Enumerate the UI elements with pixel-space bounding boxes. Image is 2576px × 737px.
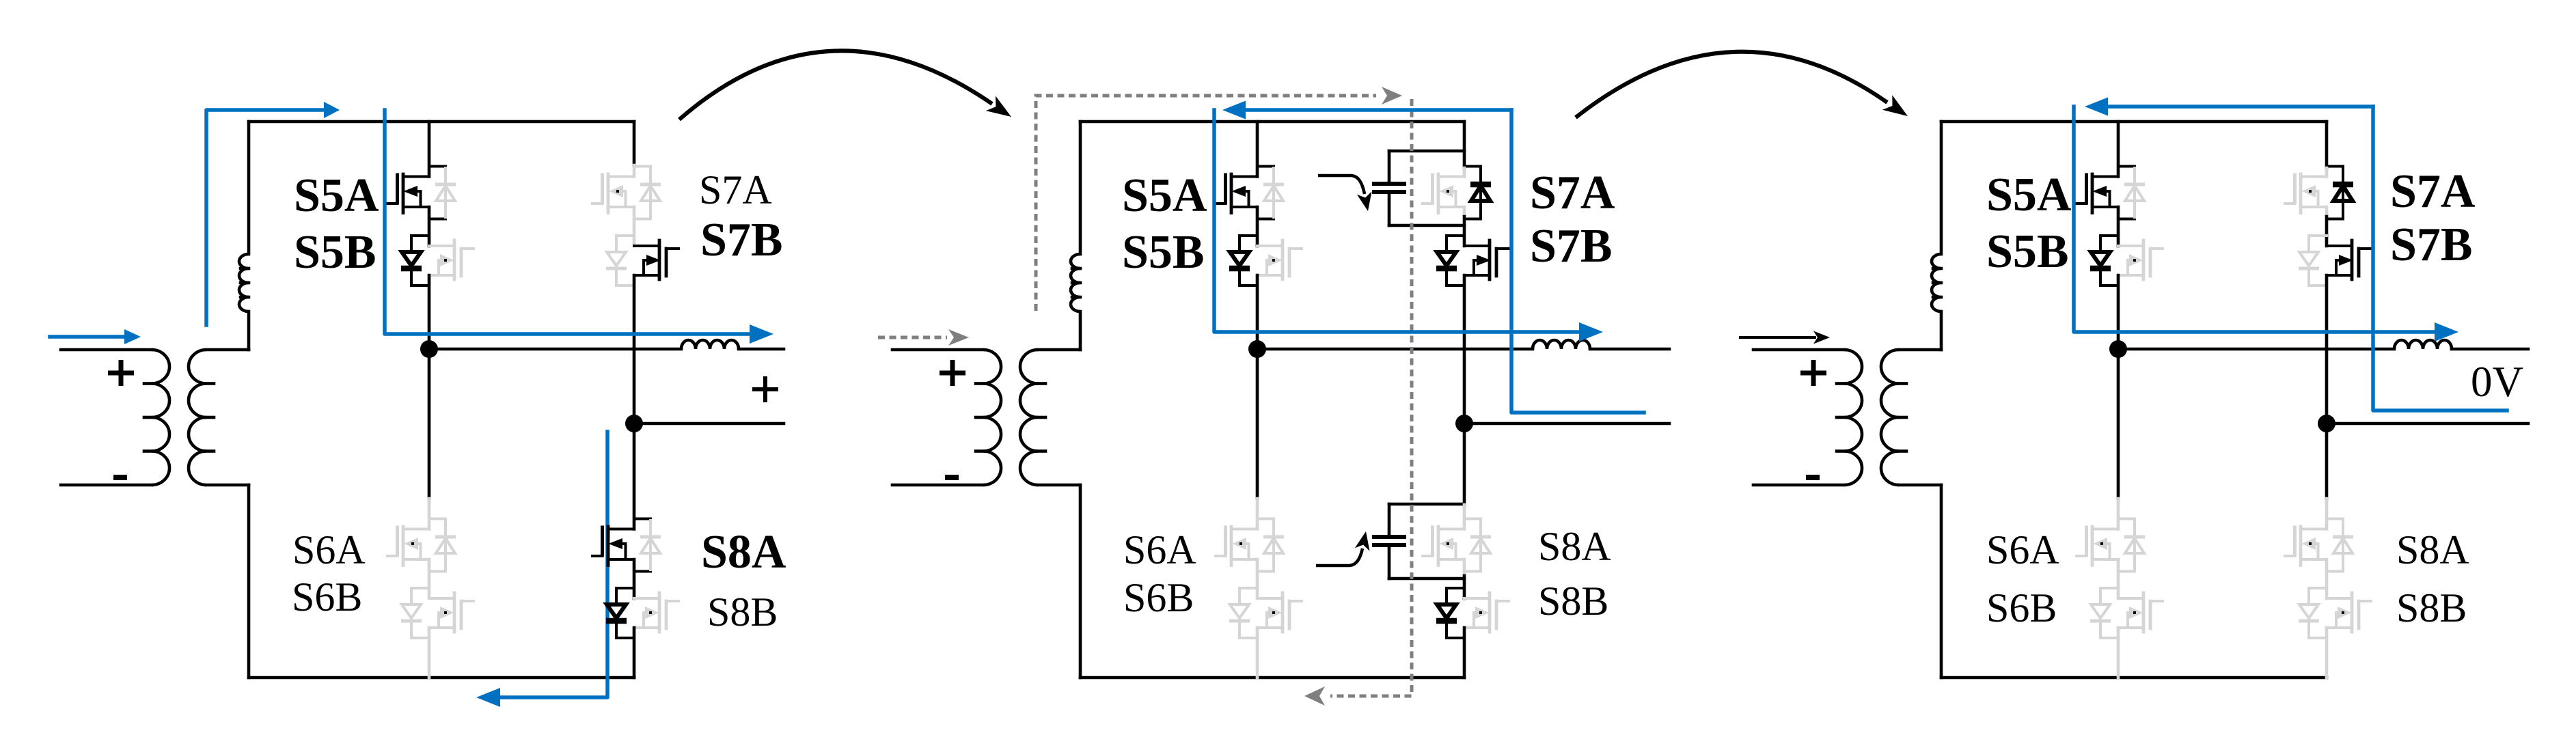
mosfet S5B (panel 2) <box>1257 240 1302 279</box>
diode S5A body diode (panel 1) <box>429 167 456 219</box>
svg-text:S6A: S6A <box>1123 527 1196 572</box>
mosfet S6A (panel 3) <box>2077 527 2118 566</box>
left rail upper (panel 3) <box>1940 122 1943 254</box>
S6 leg wire (panel 3) <box>2117 349 2120 499</box>
S5 leg wire top (panel 1) <box>428 122 431 177</box>
transformer T2 secondary winding <box>1020 350 1080 485</box>
input current arrow dashed (panel 2) <box>878 329 969 346</box>
diode S8B diode (panel 2) <box>1436 588 1464 638</box>
charging arrow for C7 (panel 2) <box>1318 176 1372 211</box>
mosfet S8B (panel 2) <box>1464 593 1509 632</box>
S8 leg gray wire bottom (panel 3) <box>2325 628 2329 678</box>
current path arrow to S5 (panel 2) <box>1222 101 1511 120</box>
upper output line (panel 2) <box>1257 348 1533 351</box>
svg-text:S7B: S7B <box>2390 219 2473 271</box>
current path freewheeling loop (panel 3) <box>2373 107 2507 411</box>
mosfet S6B (panel 3) <box>2118 593 2163 632</box>
svg-text:S8A: S8A <box>2396 527 2469 572</box>
diode S8B diode (panel 1) <box>606 588 634 638</box>
node: output junction B (panel 2) <box>1455 415 1473 432</box>
bottom rail (panel 2) <box>1080 676 1464 680</box>
node: output junction A (panel 1) <box>420 340 438 358</box>
svg-text:S5A: S5A <box>1122 169 1207 222</box>
svg-text:S6A: S6A <box>1986 527 2059 572</box>
mosfet S6B (panel 1) <box>429 593 474 632</box>
current path arrow via S5 to output (panel 1) <box>385 110 773 344</box>
upper output line (panel 1) <box>429 348 681 351</box>
diode S8A body diode (panel 1) <box>634 519 661 572</box>
upper output line after inductor (panel 1) <box>739 348 784 351</box>
diode S7B diode (panel 1) <box>606 236 634 286</box>
left rail upper (panel 1) <box>247 122 251 254</box>
S7 leg wire top (panel 2) <box>1463 122 1466 168</box>
S5 leg wire mid (panel 1) <box>428 207 431 246</box>
S7 leg wire top (panel 3) <box>2325 122 2329 168</box>
S8 leg wire mid (panel 1) <box>633 559 636 598</box>
S7 leg wire top (panel 1) <box>633 122 636 165</box>
upper output line after inductor (panel 3) <box>2452 348 2528 351</box>
mosfet S7B (panel 1) <box>634 240 679 279</box>
svg-text:S7A: S7A <box>2390 165 2476 218</box>
diode S6B diode (panel 2) <box>1229 588 1257 638</box>
transition arrow (panel 1 to panel 2) <box>679 51 1011 120</box>
current path freewheeling loop (panel 2) <box>1511 110 1644 413</box>
S7 leg wire mid (panel 2) <box>1463 217 1466 246</box>
S8 leg wire mid (panel 2) <box>1463 576 1466 598</box>
svg-text:S5A: S5A <box>1986 169 2072 221</box>
mosfet S8A (panel 3) <box>2285 527 2327 566</box>
left rail upper (panel 2) <box>1079 122 1082 254</box>
lower output line (panel 2) <box>1464 422 1669 426</box>
output inductor Lo3 <box>2394 340 2452 349</box>
mosfet S7A (panel 3) <box>2285 174 2327 213</box>
S8 leg gray wire upper (panel 3) <box>2325 499 2329 529</box>
charging arrow for C8 (panel 2) <box>1316 531 1370 566</box>
transformer T1 primary winding <box>61 350 169 485</box>
svg-text:S5B: S5B <box>1122 226 1205 279</box>
S6 leg gray wire bottom (panel 3) <box>2117 628 2120 678</box>
S7 leg gray wire bits (panel 2) <box>1463 168 1466 217</box>
svg-text:S5A: S5A <box>294 169 379 222</box>
input current arrow (panel 1) <box>50 329 141 344</box>
left rail middle (panel 3) <box>1940 311 1943 350</box>
S5 leg wire bottom (panel 3) <box>2117 275 2120 349</box>
dashed current path return (panel 2) <box>1304 99 1412 706</box>
diode S8A body diode (panel 3) <box>2327 519 2353 572</box>
top rail (panel 2) <box>1080 120 1464 124</box>
output polarity label + (panel 1) <box>752 376 778 402</box>
output inductor Lo2 <box>1533 340 1590 349</box>
svg-text:0V: 0V <box>2471 358 2523 406</box>
leakage inductor L2 (on left rail) <box>1071 254 1080 311</box>
svg-text:S6B: S6B <box>1986 585 2057 630</box>
left rail middle (panel 1) <box>247 311 251 350</box>
svg-text:S8B: S8B <box>707 589 778 635</box>
polarity label + (panel 3) <box>1800 360 1826 386</box>
mosfet S8A (panel 1) <box>592 527 634 566</box>
current path arrow via transformer (panel 1) <box>206 102 340 325</box>
S6 leg gray wire upper (panel 3) <box>2117 499 2120 529</box>
diode S6A body diode (panel 2) <box>1257 519 1284 572</box>
svg-text:S7B: S7B <box>700 214 783 266</box>
S5 leg wire mid (panel 2) <box>1256 207 1259 246</box>
diode S8B diode (panel 3) <box>2299 588 2327 638</box>
mosfet S5B (panel 1) <box>429 240 474 279</box>
diode S8A body diode (panel 2) <box>1464 519 1491 572</box>
left rail lower (panel 3) <box>1940 485 1943 678</box>
input current arrow (panel 3) <box>1740 331 1830 344</box>
S6 leg gray wire upper (panel 2) <box>1256 499 1259 529</box>
diode S7A diode (panel 3) <box>2327 167 2353 219</box>
transition arrow (panel 2 to panel 3) <box>1576 52 1908 117</box>
mosfet S8A (panel 2) <box>1423 527 1464 566</box>
S5 leg wire bottom (panel 2) <box>1256 275 1259 349</box>
svg-text:S6B: S6B <box>292 574 362 620</box>
S6 leg gray wire mid (panel 1) <box>428 559 431 598</box>
svg-text:S7A: S7A <box>1530 167 1615 219</box>
left rail lower (panel 1) <box>247 485 251 678</box>
node: output junction A (panel 2) <box>1248 340 1266 358</box>
current path arrow to S5 (panel 3) <box>2085 98 2373 116</box>
diode S6A body diode (panel 1) <box>429 519 456 572</box>
diode S7B diode (panel 3) <box>2299 236 2327 286</box>
node: output junction B (panel 3) <box>2318 415 2335 432</box>
S7 leg wire bottom (panel 3) <box>2325 275 2329 423</box>
S6 leg gray wire bottom (panel 2) <box>1256 628 1259 678</box>
svg-text:S7B: S7B <box>1530 220 1613 273</box>
mosfet S6A (panel 2) <box>1216 527 1257 566</box>
diode S7A body diode (panel 1) <box>634 167 661 219</box>
top rail (panel 1) <box>249 120 634 124</box>
dashed current path via transformer (panel 2) <box>1036 87 1402 311</box>
mosfet S5A (panel 3) <box>2077 174 2118 213</box>
S5 leg wire top (panel 2) <box>1256 122 1259 177</box>
S8 leg wire bottom (panel 1) <box>633 628 636 678</box>
svg-text:S5B: S5B <box>294 226 376 279</box>
transformer T2 primary winding <box>892 350 1001 485</box>
diode S7A diode (panel 2) <box>1464 167 1491 219</box>
svg-text:S6B: S6B <box>1123 575 1194 620</box>
upper output line after inductor (panel 2) <box>1590 348 1669 351</box>
diode S6A body diode (panel 3) <box>2118 519 2145 572</box>
diode S5B diode (panel 1) <box>401 236 429 286</box>
mosfet S5A (panel 2) <box>1216 174 1257 213</box>
current path arrow via S5 to output (panel 2) <box>1214 110 1603 342</box>
svg-text:S8A: S8A <box>1538 524 1611 569</box>
transformer T3 secondary winding <box>1881 350 1941 485</box>
leakage inductor L1 (on left rail) <box>239 254 249 311</box>
polarity label + (panel 2) <box>940 360 965 386</box>
S8 leg wire bottom (panel 2) <box>1463 628 1466 678</box>
diode S5A body diode (panel 3) <box>2118 167 2145 219</box>
S8 leg wire top (panel 2) <box>1463 423 1466 505</box>
S8 leg wire top (panel 1) <box>633 423 636 529</box>
S6 leg gray wire bottom (panel 1) <box>428 628 431 678</box>
S7 leg wire bottom (panel 2) <box>1463 275 1466 423</box>
polarity label - (panel 3) <box>1806 475 1820 480</box>
left rail lower (panel 2) <box>1079 485 1082 678</box>
S8 leg gray wire bits (panel 2) <box>1463 505 1466 576</box>
current path arrow via S5 to output (panel 3) <box>2074 107 2458 342</box>
lower output line (panel 1) <box>634 422 784 426</box>
upper output line (panel 3) <box>2118 348 2394 351</box>
polarity label - (panel 2) <box>945 475 959 480</box>
node: output junction B (panel 1) <box>625 415 643 432</box>
S7 leg gray wire (panel 1) <box>633 165 636 177</box>
mosfet S7A (panel 1) <box>592 174 634 213</box>
lower output line (panel 3) <box>2327 422 2528 426</box>
S8 leg gray wire mid (panel 3) <box>2325 559 2329 598</box>
diode S5B diode (panel 2) <box>1229 236 1257 286</box>
S6 leg gray wire upper (panel 1) <box>428 499 431 529</box>
current path arrow via S8 return (panel 1) <box>476 432 607 707</box>
diode S7B diode (panel 2) <box>1436 236 1464 286</box>
mosfet S8B (panel 3) <box>2327 593 2371 632</box>
top rail (panel 3) <box>1941 120 2327 124</box>
svg-text:S8B: S8B <box>2396 585 2467 630</box>
S7 leg wire bottom (panel 1) <box>633 275 636 423</box>
polarity label + (panel 1) <box>108 360 134 386</box>
S5 leg wire top (panel 3) <box>2117 122 2120 177</box>
svg-text:S8B: S8B <box>1538 579 1608 624</box>
capacitor C8 (panel 2) <box>1372 504 1464 579</box>
diode S5A body diode (panel 2) <box>1257 167 1284 219</box>
S5 leg wire bottom (panel 1) <box>428 275 431 349</box>
S6 leg wire (panel 1) <box>428 349 431 499</box>
S5 leg wire mid (panel 3) <box>2117 207 2120 246</box>
leakage inductor L3 (on left rail) <box>1932 254 1941 311</box>
output inductor Lo1 <box>681 340 739 349</box>
S7 leg gray wire bits (panel 3) <box>2325 168 2329 217</box>
svg-text:S5B: S5B <box>1986 225 2069 278</box>
svg-text:S7A: S7A <box>699 167 772 212</box>
mosfet S5B (panel 3) <box>2118 240 2163 279</box>
mosfet S7A (panel 2) <box>1423 174 1464 213</box>
mosfet S7B (panel 3) <box>2327 240 2371 279</box>
node: output junction A (panel 3) <box>2109 340 2127 358</box>
left rail middle (panel 2) <box>1079 311 1082 350</box>
mosfet S6A (panel 1) <box>387 527 429 566</box>
mosfet S7B (panel 2) <box>1464 240 1509 279</box>
mosfet S6B (panel 2) <box>1257 593 1302 632</box>
mosfet S5A (panel 1) <box>387 174 429 213</box>
mosfet S8B (panel 1) <box>634 593 679 632</box>
S8 leg wire top (panel 3) <box>2325 423 2329 499</box>
transformer T1 secondary winding <box>189 350 249 485</box>
polarity label - (panel 1) <box>113 475 127 480</box>
svg-text:S8A: S8A <box>701 526 786 579</box>
S6 leg wire (panel 2) <box>1256 349 1259 499</box>
diode S6B diode (panel 3) <box>2090 588 2118 638</box>
diode S5B diode (panel 3) <box>2090 236 2118 286</box>
diode S6B diode (panel 1) <box>401 588 429 638</box>
transformer T3 primary winding <box>1753 350 1862 485</box>
S6 leg gray wire mid (panel 3) <box>2117 559 2120 598</box>
S6 leg gray wire mid (panel 2) <box>1256 559 1259 598</box>
bottom rail (panel 3) <box>1941 676 2327 680</box>
S7 leg wire mid (panel 3) <box>2325 217 2329 246</box>
svg-text:S6A: S6A <box>292 527 366 572</box>
S7 leg gray wire mid (panel 1) <box>633 207 636 246</box>
bottom rail (panel 1) <box>249 676 634 680</box>
capacitor C7 (panel 2) <box>1372 151 1464 225</box>
